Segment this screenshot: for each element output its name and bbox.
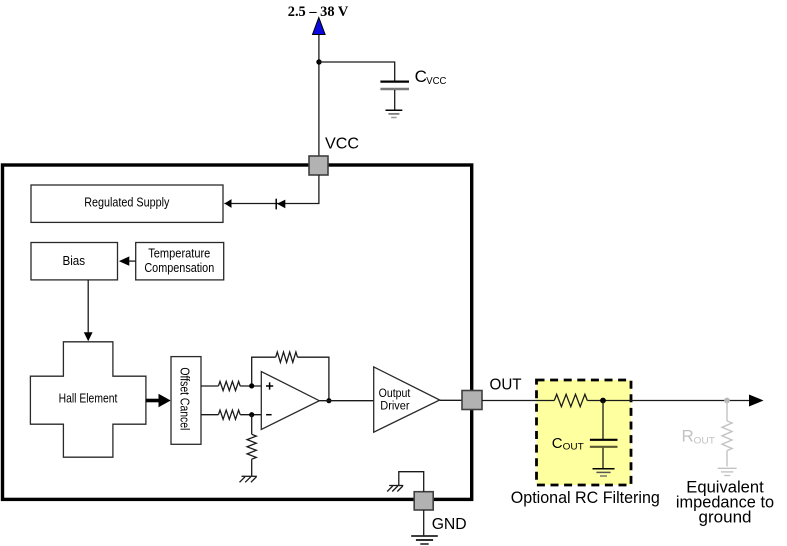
ground (hatched, op-amp bias) bbox=[242, 475, 257, 477]
ground (Rout, gray) bbox=[718, 467, 737, 469]
svg-text:Driver: Driver bbox=[380, 401, 409, 413]
chip outline (device boundary) bbox=[3, 165, 472, 499]
node - input bbox=[249, 412, 254, 417]
svg-text:OUT: OUT bbox=[490, 377, 522, 394]
capacitor Cout bbox=[590, 439, 618, 441]
wire: op-amp out to Output Driver bbox=[319, 400, 373, 402]
op-amp U1 bbox=[261, 372, 319, 430]
svg-text:Hall Element: Hall Element bbox=[59, 392, 118, 406]
wire: driver to OUT pin bbox=[440, 399, 462, 401]
svg-text:C: C bbox=[415, 67, 427, 86]
svg-text:Offset Cancel: Offset Cancel bbox=[178, 367, 192, 430]
svg-text:Bias: Bias bbox=[62, 254, 85, 268]
filter resistor bbox=[554, 394, 587, 406]
ground (Cvcc) bbox=[386, 109, 403, 111]
resistor (+ input) bbox=[218, 381, 240, 390]
wire: Cvcc to ground bbox=[394, 90, 396, 110]
wire: junction down to Cout bbox=[602, 401, 604, 440]
svg-text:GND: GND bbox=[432, 516, 467, 533]
node + input bbox=[249, 383, 254, 388]
Hall Element (cross shape) bbox=[30, 342, 145, 457]
resistor to ground (vertical) bbox=[247, 434, 256, 459]
svg-text:Output: Output bbox=[379, 388, 411, 400]
ground (Cout) bbox=[593, 468, 615, 470]
capacitor Cvcc bbox=[380, 80, 409, 82]
power arrow 2.5-38V (blue) bbox=[313, 18, 326, 35]
wire to + input bbox=[240, 385, 261, 387]
wire: internal gnd hook bbox=[399, 472, 424, 492]
ground (hatched, internal) bbox=[389, 485, 403, 487]
wire: - node down to resistor bbox=[251, 415, 253, 435]
svg-text:Temperature: Temperature bbox=[148, 247, 210, 261]
node: junction of supply and Cvcc bbox=[316, 59, 321, 64]
wire: GND pin to ground bbox=[423, 510, 425, 536]
block Regulated Supply bbox=[31, 185, 223, 222]
wire+arrow: Temperature Compensation to Bias bbox=[128, 260, 136, 262]
svg-text:Compensation: Compensation bbox=[144, 261, 214, 275]
arrowhead (output to load) bbox=[749, 395, 764, 407]
pin OUT (gray pad) bbox=[462, 391, 482, 410]
node: filter R-C junction bbox=[600, 398, 606, 404]
diode-style arrowhead mid-wire bbox=[275, 199, 277, 210]
block Temperature Compensation bbox=[136, 243, 224, 280]
feedback loop wire bbox=[252, 357, 276, 386]
Output Driver (triangle) bbox=[374, 367, 440, 432]
node op-amp output bbox=[326, 398, 331, 403]
pin VCC (gray pad) bbox=[309, 156, 328, 175]
wire: junction to Rout (gray) bbox=[726, 401, 728, 421]
pin GND (gray pad) bbox=[414, 492, 433, 510]
block Offset Cancel (vertical text) bbox=[171, 357, 201, 445]
wire: supply feed from 2.5-38V arrow down to VCC pin bbox=[318, 33, 320, 157]
ground (GND pin) bbox=[411, 535, 438, 537]
thick arrow: Hall Element to Offset Cancel bbox=[146, 399, 159, 403]
wire: VCC pin to Regulated Supply bbox=[224, 175, 319, 204]
svg-text:R: R bbox=[682, 427, 694, 446]
svg-text:OUT: OUT bbox=[563, 442, 584, 453]
wire: junction to Cvcc capacitor bbox=[319, 62, 395, 81]
wire+arrow: Bias down to Hall Element bbox=[87, 280, 89, 334]
svg-text:OUT: OUT bbox=[694, 436, 716, 447]
svg-text:C: C bbox=[552, 435, 563, 452]
feedback resistor bbox=[276, 352, 298, 362]
svg-text:VCC: VCC bbox=[325, 136, 359, 153]
wire to - input bbox=[240, 414, 261, 416]
svg-text:VCC: VCC bbox=[426, 76, 446, 87]
arrowhead into Regulated Supply bbox=[224, 199, 231, 208]
svg-text:ground: ground bbox=[699, 508, 752, 527]
optional RC filter box (yellow dashed) bbox=[537, 380, 632, 485]
wire: Offset Cancel bottom output bbox=[201, 414, 218, 416]
svg-text:2.5 – 38 V: 2.5 – 38 V bbox=[288, 4, 349, 20]
svg-text:Regulated Supply: Regulated Supply bbox=[84, 196, 170, 210]
wire: OUT pin through filter to load bbox=[482, 400, 554, 402]
block Bias bbox=[31, 243, 118, 280]
svg-text:Optional RC Filtering: Optional RC Filtering bbox=[511, 488, 660, 507]
resistor (- input) bbox=[218, 410, 240, 419]
node: load junction (gray) bbox=[724, 398, 730, 404]
resistor Rout (gray equivalent load) bbox=[722, 421, 732, 451]
wire: Offset Cancel top output bbox=[201, 385, 218, 387]
